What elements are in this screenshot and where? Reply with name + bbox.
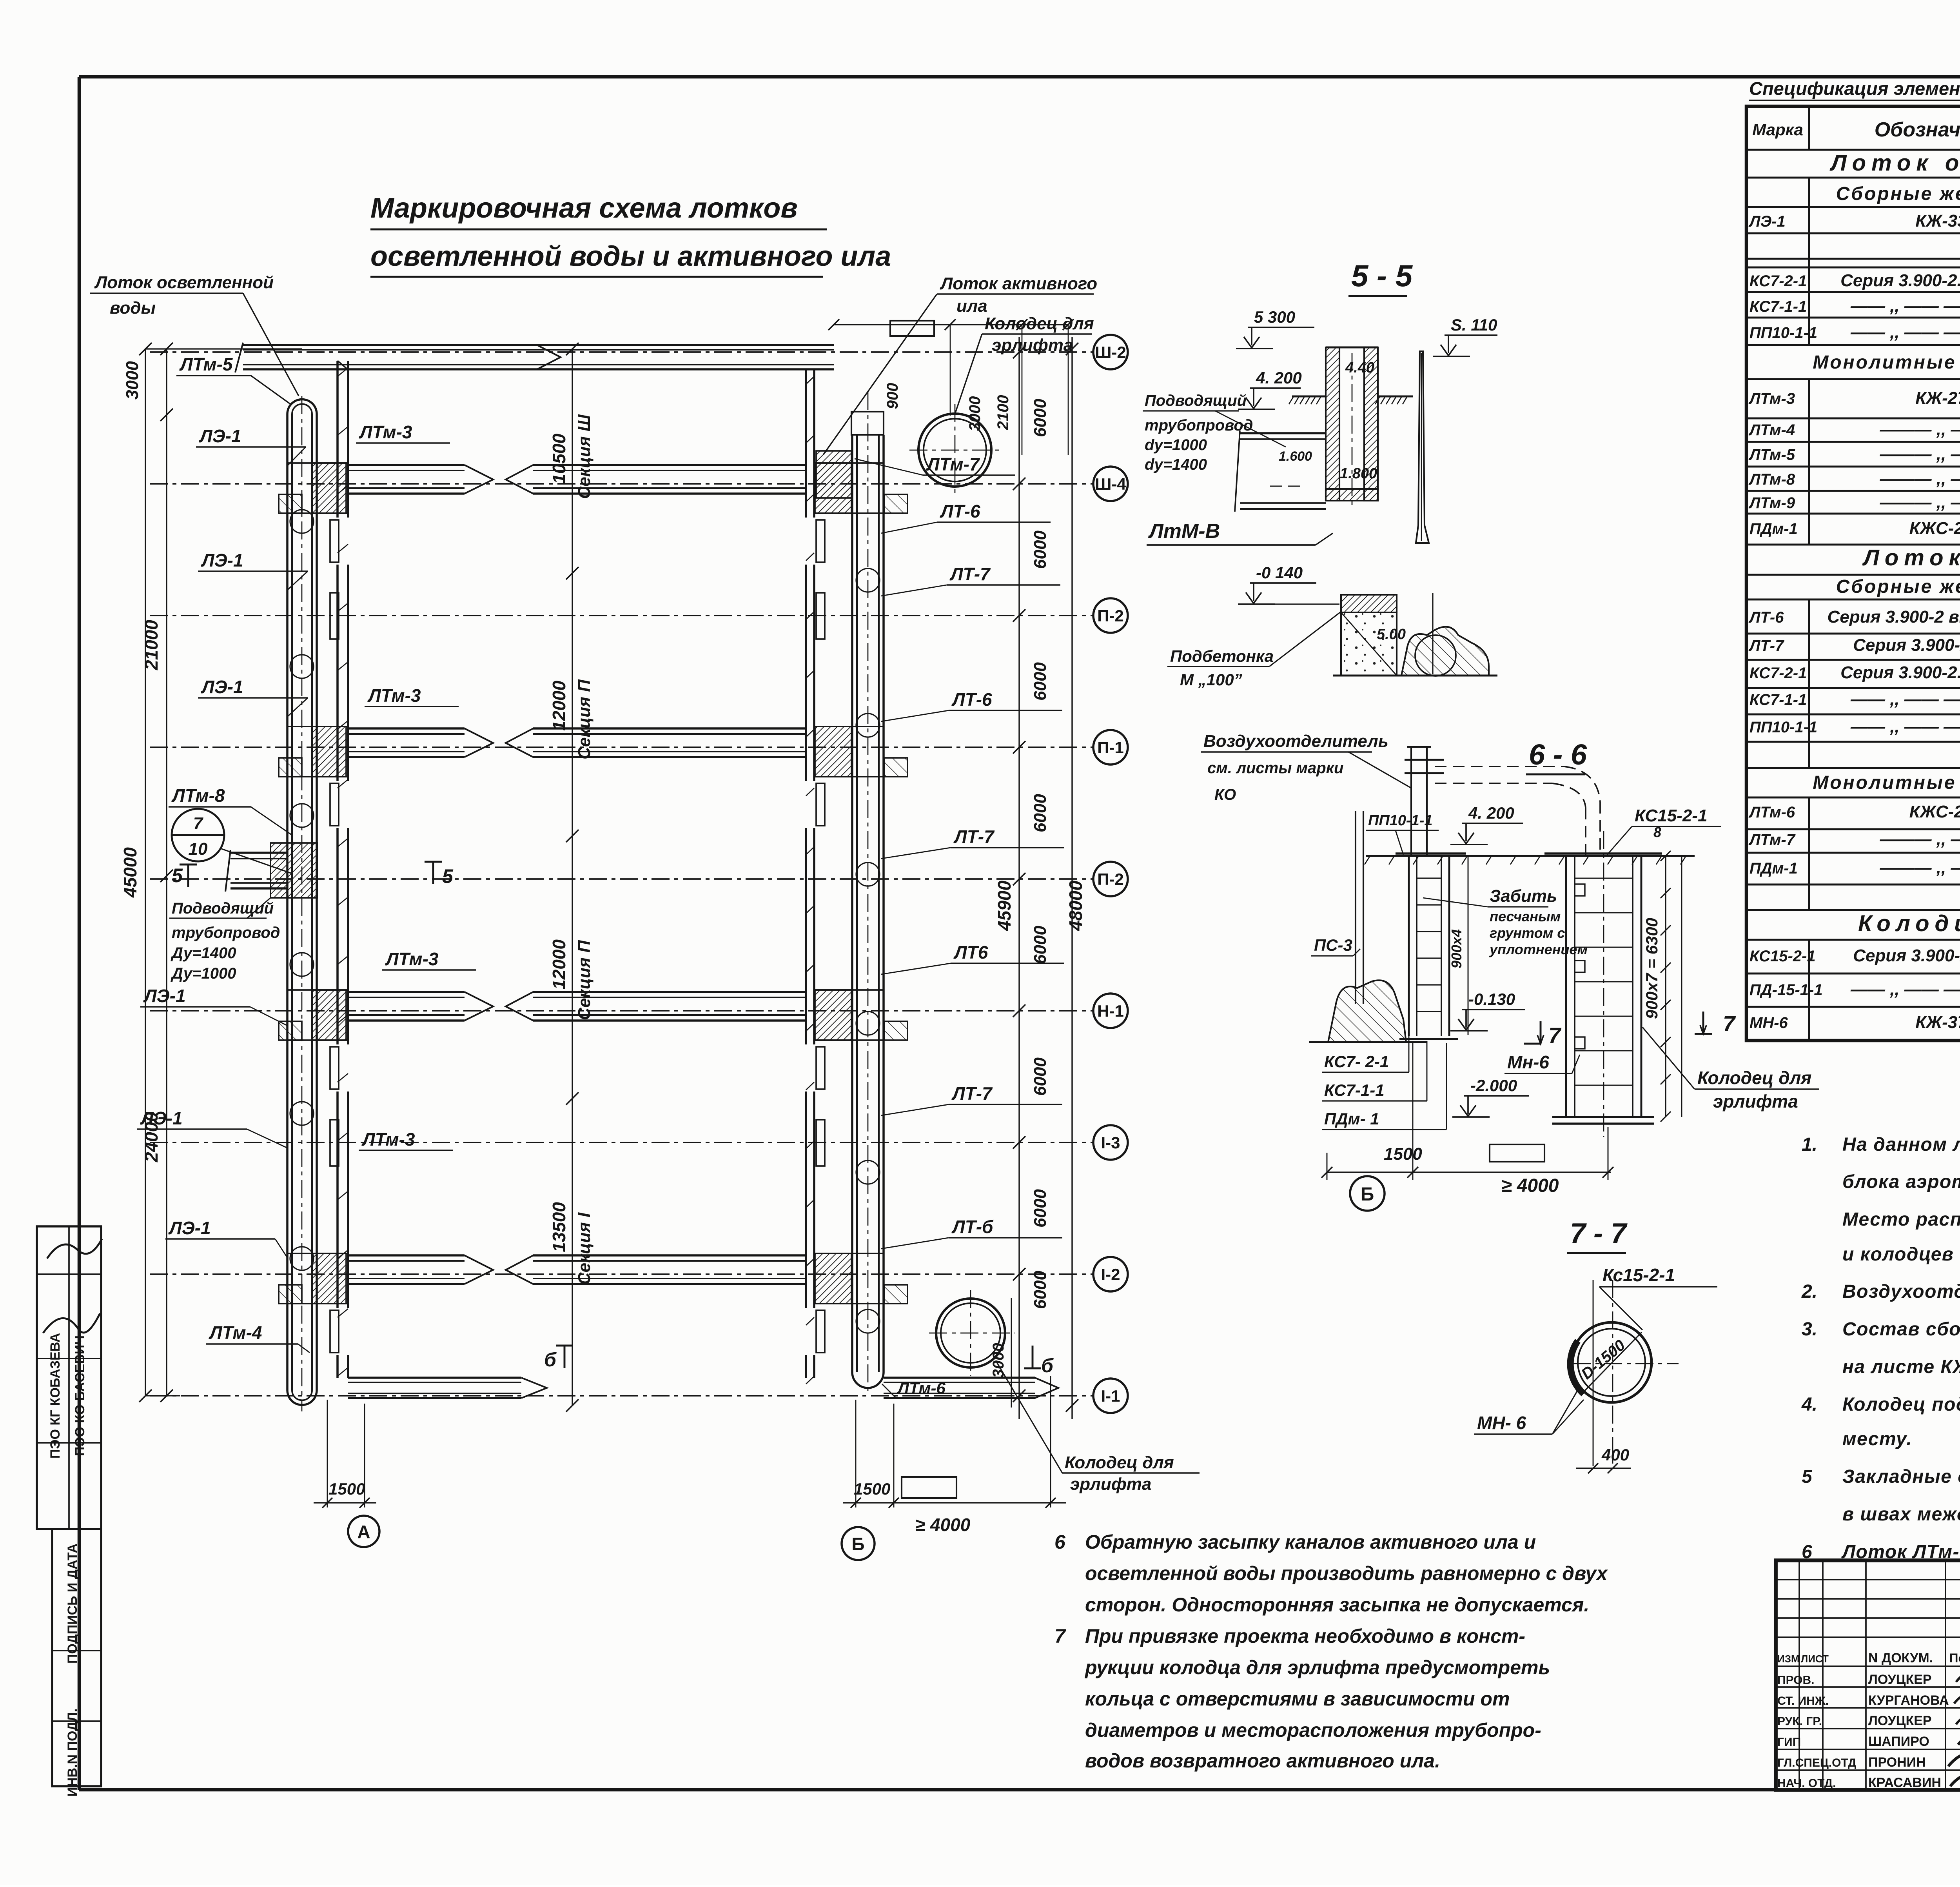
branch channel ЛТм-3 at axis y=1234 (left system) <box>279 463 493 513</box>
svg-text:6000: 6000 <box>1031 662 1050 701</box>
section marker б (right) <box>1024 1346 1054 1377</box>
svg-text:Ш-4: Ш-4 <box>1095 475 1126 493</box>
svg-text:А: А <box>357 1522 370 1542</box>
svg-text:П-1: П-1 <box>1097 738 1124 757</box>
label ЛТм-4 <box>206 1322 310 1353</box>
label ЛТ-7 (2) <box>881 564 1060 596</box>
svg-text:5 300: 5 300 <box>1254 308 1295 326</box>
svg-text:грунтом с: грунтом с <box>1490 925 1565 941</box>
svg-text:КС7- 2-1: КС7- 2-1 <box>1324 1052 1389 1071</box>
svg-text:эрлифта: эрлифта <box>992 336 1073 355</box>
svg-text:КЖ-37: КЖ-37 <box>1915 1013 1960 1032</box>
svg-text:уплотнением: уплотнением <box>1489 941 1588 957</box>
left dimension line 45000 <box>120 343 152 1402</box>
svg-text:1500: 1500 <box>854 1480 890 1498</box>
svg-text:ПЭО КО БАСЕВИЧ: ПЭО КО БАСЕВИЧ <box>73 1335 87 1456</box>
svg-text:5 - 5: 5 - 5 <box>1351 258 1413 293</box>
label ЛТ-7 (4) <box>881 826 1064 859</box>
svg-text:При привязке проекта необхо: При привязке проекта необходимо в конст- <box>1085 1625 1525 1647</box>
svg-text:блока аэротенков из четырех: блока аэротенков из четырех секций <box>1842 1171 1960 1192</box>
svg-text:—— ,, —— —— ,, ——: —— ,, —— —— ,, —— <box>1850 717 1960 736</box>
svg-text:ПДм- 1: ПДм- 1 <box>1324 1110 1379 1128</box>
svg-text:ЛТм-6: ЛТм-6 <box>897 1379 946 1397</box>
detail 5-5 inlet pipe <box>1235 430 1326 512</box>
svg-text:ЛтМ-В: ЛтМ-В <box>1148 520 1220 543</box>
level mark 5.300 <box>290 308 1819 1473</box>
detail 6-6 right well (airlift) <box>1544 831 1662 1137</box>
svg-text:ЛЭ-1: ЛЭ-1 <box>140 1108 183 1128</box>
svg-text:I-2: I-2 <box>1101 1265 1120 1284</box>
svg-text:сторон. Односторонняя засыпка: сторон. Односторонняя засыпка не допуска… <box>1085 1594 1589 1616</box>
svg-text:ПРОВ.: ПРОВ. <box>1777 1674 1815 1687</box>
svg-text:РУК. ГР.: РУК. ГР. <box>1777 1715 1822 1728</box>
svg-text:ЛТ-7: ЛТ-7 <box>1748 637 1784 654</box>
label ЛЭ-1 (1) <box>196 426 306 466</box>
section marker 5 (middle) <box>425 862 454 887</box>
svg-text:5: 5 <box>1802 1466 1813 1487</box>
svg-text:Колодец под эрлифт перекрыт: Колодец под эрлифт перекрыть деревянной … <box>1842 1394 1960 1415</box>
svg-text:Спецификация элементов к марки: Спецификация элементов к маркировочным с… <box>1749 78 1960 99</box>
notes items 6-7 bottom centre <box>1054 1531 1608 1772</box>
svg-text:Маркировочная схема лотков: Маркировочная схема лотков <box>370 193 798 224</box>
svg-text:КС7-2-1: КС7-2-1 <box>1749 665 1807 682</box>
svg-text:Место расположения и диаметр: Место расположения и диаметр подводящего… <box>1842 1209 1960 1230</box>
branch channel ЛТ at axis y=2578 (right system) <box>506 990 907 1040</box>
svg-text:СТ. ИНЖ.: СТ. ИНЖ. <box>1777 1694 1829 1707</box>
svg-text:900х7 = 6300: 900х7 = 6300 <box>1642 918 1661 1019</box>
clarified water channel (left vertical trough) <box>287 396 317 1411</box>
svg-text:ЛТм-8: ЛТм-8 <box>171 785 225 806</box>
detail 6-6 pile ПС-3 <box>1309 811 1427 1042</box>
svg-text:1500: 1500 <box>1384 1144 1422 1164</box>
detail подбетонка section <box>1333 593 1497 676</box>
svg-text:7: 7 <box>1723 1011 1736 1036</box>
section marker б (left) <box>544 1346 573 1371</box>
label ПС-3 <box>1311 936 1360 956</box>
axis line I-3 <box>150 1125 1128 1160</box>
svg-text:воды: воды <box>110 298 156 318</box>
svg-text:ПП10-1-1: ПП10-1-1 <box>1368 812 1433 829</box>
svg-text:КС7-1-1: КС7-1-1 <box>1749 691 1807 708</box>
label ЛТм-6 <box>882 1379 960 1398</box>
label КС15-2-1 (7-7) <box>1599 1265 1717 1330</box>
level mark -0.140 <box>290 510 1819 1473</box>
svg-text:Лоток осветленной воды: Лоток осветленной воды <box>1829 150 1960 176</box>
svg-text:КС7-2-1: КС7-2-1 <box>1749 272 1807 290</box>
svg-text:——— ,, ———: ——— ,, ——— <box>1880 858 1960 877</box>
svg-text:ЛТм-7: ЛТм-7 <box>926 454 980 474</box>
detail 6-6 air separator pipe <box>1405 747 1600 856</box>
svg-text:45000: 45000 <box>120 847 140 898</box>
svg-text:Секция П: Секция П <box>575 940 594 1020</box>
svg-text:ЛТм-5: ЛТм-5 <box>179 354 233 374</box>
level mark -0.130 <box>290 510 1819 1473</box>
label ЛТм-3 (3) <box>382 949 476 970</box>
svg-text:—— ,, —— —— ,, ——: —— ,, —— —— ,, —— <box>1850 323 1960 342</box>
svg-text:Колодец для: Колодец для <box>985 314 1094 333</box>
right 6000 spacing labels <box>1031 399 1050 1309</box>
svg-text:КС15-2-1: КС15-2-1 <box>1749 948 1816 965</box>
svg-text:Ду=1000: Ду=1000 <box>171 965 236 982</box>
svg-text:НАЧ. ОТД.: НАЧ. ОТД. <box>1777 1777 1836 1790</box>
svg-text:Мн-6: Мн-6 <box>1507 1052 1549 1072</box>
label ЛТ-7 (6) <box>881 1083 1062 1115</box>
svg-text:КЖ-33: КЖ-33 <box>1915 211 1960 231</box>
svg-text:7 - 7: 7 - 7 <box>1570 1218 1628 1249</box>
label ЛТ6 (5) <box>881 942 1064 974</box>
section cut marker 7 (outer) <box>1695 1011 1736 1036</box>
svg-text:6 - 6: 6 - 6 <box>1529 738 1587 771</box>
column mark circle Б <box>842 1527 875 1560</box>
svg-text:Секция Ш: Секция Ш <box>575 414 594 499</box>
svg-text:ЛТм-3: ЛТм-3 <box>359 422 412 442</box>
svg-text:1500: 1500 <box>328 1480 365 1498</box>
svg-text:ЛТм-7: ЛТм-7 <box>1748 831 1796 848</box>
svg-text:ЛТ-6: ЛТ-6 <box>940 501 980 521</box>
svg-text:7: 7 <box>1054 1625 1066 1647</box>
svg-text:На данном листе дана схема: На данном листе дана схема лотков при ко… <box>1842 1134 1960 1155</box>
svg-text:——— ,, ———: ——— ,, ——— <box>1880 420 1960 439</box>
level mark 4.200 (6-6) <box>290 510 1819 1473</box>
svg-text:П-2: П-2 <box>1097 607 1124 625</box>
detail 5-5 shaft section <box>1289 347 1413 510</box>
svg-text:-0 140: -0 140 <box>1256 563 1303 582</box>
svg-text:М „100”: М „100” <box>1180 670 1242 689</box>
svg-text:ПП10-1-1: ПП10-1-1 <box>1749 324 1817 341</box>
text Забить песчаным грунтом <box>1423 886 1588 957</box>
label МН-6 (7-7) <box>1474 1388 1584 1434</box>
label Лоток осветленной воды <box>90 273 299 396</box>
svg-text:Ду=1400: Ду=1400 <box>171 944 236 962</box>
bottom channel arm (left system, axis I-1) <box>348 1378 547 1398</box>
label Лоток активного ила <box>823 274 1097 455</box>
svg-text:ЛЭ-1: ЛЭ-1 <box>201 677 243 697</box>
svg-text:Лоток активного: Лоток активного <box>940 274 1097 293</box>
section marker 5 (left) <box>172 864 197 887</box>
label ЛТм-3 (2) <box>365 685 459 706</box>
svg-text:песчаным: песчаным <box>1490 908 1561 924</box>
svg-text:ГИП: ГИП <box>1777 1736 1801 1749</box>
label ЛЭ-1 (6) <box>165 1218 287 1258</box>
svg-text:ЛТ6: ЛТ6 <box>953 942 988 963</box>
bottom channel arm (right system, axis I-1) <box>884 1378 1058 1398</box>
inlet pipe (Подводящий трубопровод) on plan <box>225 843 318 898</box>
detail 6-6 ground line <box>1365 856 1695 864</box>
svg-text:——— ,, ———: ——— ,, ——— <box>1880 830 1960 849</box>
leader to подбетонка <box>1275 603 1339 605</box>
svg-text:5: 5 <box>442 865 454 887</box>
activated sludge channel (right vertical trough) <box>851 392 884 1396</box>
title block texts <box>1777 1580 1960 1836</box>
svg-text:КРАСАВИН: КРАСАВИН <box>1868 1775 1941 1790</box>
svg-text:Закладные детали МН-6 для: Закладные детали МН-6 для крепления эрли… <box>1842 1466 1960 1487</box>
top distribution channel along axis Ш-2 <box>235 343 834 372</box>
svg-text:месту.: месту. <box>1842 1429 1912 1449</box>
label Подводящий трубопровод (plan) <box>169 898 280 982</box>
svg-text:ПРОНИН: ПРОНИН <box>1868 1755 1926 1770</box>
svg-text:6: 6 <box>1054 1531 1066 1553</box>
svg-text:Обозначение: Обозначение <box>1875 118 1960 141</box>
svg-text:ЛТм-5: ЛТм-5 <box>1748 446 1795 463</box>
svg-text:4.40: 4.40 <box>1345 360 1374 376</box>
ЛТм-9 tag rectangle <box>890 321 934 336</box>
label ЛЭ-1 (3) <box>198 677 308 717</box>
svg-text:ПДм-1: ПДм-1 <box>1749 520 1798 538</box>
svg-text:900х4: 900х4 <box>1448 929 1465 968</box>
bottom dim 1500 (axis A) <box>314 1400 376 1508</box>
svg-text:ПОДПИСЬ И ДАТА: ПОДПИСЬ И ДАТА <box>65 1544 80 1664</box>
svg-text:1.800: 1.800 <box>1340 465 1377 482</box>
axis line Ш-4 <box>150 467 1128 501</box>
svg-text:Воздухоотделитель: Воздухоотделитель <box>1203 732 1388 751</box>
axis line I-2 <box>150 1257 1128 1291</box>
svg-text:Кс15-2-1: Кс15-2-1 <box>1602 1265 1675 1285</box>
svg-text:на листе КЖ-10.: на листе КЖ-10. <box>1842 1357 1960 1377</box>
svg-text:ЛЭ-1: ЛЭ-1 <box>199 426 241 446</box>
svg-text:ЛЭ-1: ЛЭ-1 <box>168 1218 211 1238</box>
svg-text:ИНВ.N ПОДЛ.: ИНВ.N ПОДЛ. <box>65 1709 80 1797</box>
svg-text:ШАПИРО: ШАПИРО <box>1868 1734 1929 1749</box>
level mark 4.200 (5-5) <box>290 347 1819 1473</box>
label ЛЭ-1 (2) <box>198 550 308 590</box>
dim 400 (7-7) <box>1576 1446 1631 1473</box>
svg-text:8: 8 <box>1653 824 1661 840</box>
svg-text:ЛОУЦКЕР: ЛОУЦКЕР <box>1868 1713 1932 1728</box>
svg-text:—— ,, —— —— ,, ——: —— ,, —— —— ,, —— <box>1850 980 1960 999</box>
svg-text:в швах между кольцами колод: в швах между кольцами колодца <box>1842 1504 1960 1525</box>
wall door stubs at intermediate axes (left wall) <box>330 593 339 1166</box>
svg-text:осветленной воды производить: осветленной воды производить равномерно … <box>1085 1562 1608 1584</box>
svg-text:Колодец для: Колодец для <box>1065 1453 1174 1472</box>
axis line Н-1 <box>150 993 1128 1028</box>
svg-text:Состав сборно-монолитного ло: Состав сборно-монолитного лотка осветлен… <box>1842 1319 1960 1340</box>
svg-text:Лоток осветленной: Лоток осветленной <box>94 273 274 292</box>
svg-text:N ДОКУМ.: N ДОКУМ. <box>1868 1651 1933 1665</box>
svg-text:ЛТм-4: ЛТм-4 <box>1748 421 1795 439</box>
channel joint bells (left) <box>290 510 314 1270</box>
label ЛТм-3 (1) <box>356 422 450 443</box>
svg-text:I-1: I-1 <box>1101 1387 1120 1405</box>
level mark -2.000 <box>290 510 1819 1473</box>
airlift well (bottom) <box>929 1290 1015 1376</box>
svg-text:б: б <box>544 1349 557 1371</box>
dim 300x4 left of well <box>1448 856 1468 1035</box>
svg-text:3000: 3000 <box>990 1343 1007 1378</box>
top dim line over well <box>828 319 1074 455</box>
svg-text:ЛИСТ: ЛИСТ <box>1801 1653 1829 1665</box>
bottom dim 1500 / 4000 (axis Б) <box>843 1376 1066 1535</box>
filing strip margin table <box>37 1226 102 1796</box>
svg-text:4. 200: 4. 200 <box>1256 369 1302 387</box>
svg-text:Б: Б <box>851 1534 864 1554</box>
label Подбетонка М100 <box>1167 612 1341 689</box>
svg-text:7: 7 <box>193 814 204 833</box>
axis line П-1 <box>150 730 1128 765</box>
svg-text:эрлифта: эрлифта <box>1070 1475 1151 1494</box>
svg-text:ЛТм-3: ЛТм-3 <box>1748 390 1795 407</box>
svg-text:45900: 45900 <box>994 881 1014 931</box>
svg-text:6000: 6000 <box>1031 1271 1050 1309</box>
detail 6-6 bottom dims <box>1321 1043 1613 1196</box>
svg-text:4.: 4. <box>1801 1394 1817 1415</box>
svg-text:КУРГАНОВА: КУРГАНОВА <box>1868 1693 1949 1708</box>
svg-text:Обратную засыпку каналов ак: Обратную засыпку каналов активного ила и <box>1085 1531 1536 1553</box>
svg-text:6000: 6000 <box>1031 1189 1050 1228</box>
svg-text:10500: 10500 <box>549 434 569 484</box>
svg-text:осветленной воды и активного: осветленной воды и активного ила <box>370 241 891 272</box>
svg-text:Серия 3.900-2 вып.6 КЖ-33: Серия 3.900-2 вып.6 КЖ-33 <box>1828 607 1960 627</box>
svg-text:-0.130: -0.130 <box>1468 990 1515 1008</box>
detail 7-7 ring section <box>1570 1280 1679 1468</box>
left dimension line 3000/21000/24000 <box>123 343 302 1402</box>
svg-text:эрлифта: эрлифта <box>1713 1091 1798 1111</box>
svg-text:dy=1000: dy=1000 <box>1145 436 1207 454</box>
svg-text:ЛЭ-1: ЛЭ-1 <box>1748 213 1786 230</box>
svg-text:МН- 6: МН- 6 <box>1477 1413 1526 1433</box>
svg-text:КЖ-27: КЖ-27 <box>1915 389 1960 408</box>
label Колодец для эрлифта (bottom) <box>996 1360 1200 1494</box>
svg-text:ЛТ-7: ЛТ-7 <box>949 564 991 584</box>
svg-text:ПС-3: ПС-3 <box>1314 936 1352 954</box>
svg-text:Забить: Забить <box>1490 886 1557 906</box>
main title <box>370 193 891 277</box>
svg-text:ЛТ-7: ЛТ-7 <box>951 1083 993 1104</box>
branch channel ЛТм-3 at axis y=3250 (left system) <box>279 1253 493 1304</box>
svg-text:Б: Б <box>1361 1184 1374 1205</box>
right aerotank wall <box>806 370 825 1384</box>
label ЛЭ-1 (4) <box>140 986 287 1026</box>
svg-text:Ш-2: Ш-2 <box>1095 343 1126 361</box>
detail 5-5 pile wall <box>1416 351 1429 543</box>
level mark 5.110 <box>290 316 1819 1473</box>
branch channel ЛТ at axis y=3250 (right system) <box>506 1253 907 1304</box>
svg-text:Серия 3.900-2 вып. 6: Серия 3.900-2 вып. 6 <box>1853 636 1960 655</box>
svg-text:трубопровод: трубопровод <box>172 924 280 941</box>
label Мн-6 <box>1504 1052 1580 1073</box>
detail callout circle 7/10 <box>172 809 292 874</box>
svg-text:Лоток активного ила: Лоток активного ила <box>1862 545 1960 570</box>
svg-text:1.: 1. <box>1802 1134 1817 1155</box>
airlift well (top, Колодец для эрлифта) <box>909 404 1002 498</box>
branch channel ЛТм-3 at axis y=1906 (left system) <box>279 726 493 777</box>
svg-text:13500: 13500 <box>549 1202 569 1252</box>
svg-text:5.00: 5.00 <box>1377 626 1406 643</box>
svg-text:ЛТм-8: ЛТм-8 <box>1748 471 1795 488</box>
svg-text:——— ,, ———: ——— ,, ——— <box>1880 445 1960 464</box>
svg-text:S. 110: S. 110 <box>1451 316 1497 334</box>
ЛТм-7 junction hatch <box>816 451 851 498</box>
svg-text:I-3: I-3 <box>1101 1133 1120 1152</box>
svg-text:трубопровод: трубопровод <box>1145 417 1253 434</box>
svg-text:—— ,, —— —— ,, ——: —— ,, —— —— ,, —— <box>1850 690 1960 709</box>
svg-text:КС15-2-1: КС15-2-1 <box>1635 806 1707 825</box>
svg-text:Марка: Марка <box>1752 120 1803 139</box>
svg-text:1.600: 1.600 <box>1279 449 1312 464</box>
svg-text:12000: 12000 <box>549 939 569 990</box>
svg-text:ПДм-1: ПДм-1 <box>1749 860 1798 877</box>
svg-text:Секция П: Секция П <box>575 679 594 759</box>
svg-text:Подпись: Подпись <box>1949 1651 1960 1665</box>
labels КС7-2-1 КС7-1-1 ПДм-1 (6-6 left) <box>1322 1019 1446 1130</box>
svg-text:ЛТм-4: ЛТм-4 <box>209 1322 262 1343</box>
svg-text:и колодцев для эрлифтов опр: и колодцев для эрлифтов определяется при… <box>1842 1244 1960 1265</box>
label Воздухоотделитель <box>1201 732 1411 803</box>
column mark circle Б (6-6) <box>1350 1176 1385 1211</box>
notes list items 1-6 <box>1801 1134 1960 1562</box>
svg-text:6000: 6000 <box>1031 530 1050 569</box>
svg-text:ЛТ-6: ЛТ-6 <box>1748 609 1784 626</box>
branch channel ЛТ at axis y=1234 (right system) <box>506 463 907 513</box>
column mark circle А <box>348 1516 379 1547</box>
svg-text:6000: 6000 <box>1031 926 1050 964</box>
svg-text:3000: 3000 <box>123 361 142 400</box>
right dimension line 48000 <box>1065 337 1086 1419</box>
svg-text:Сборные железобетонные эле: Сборные железобетонные элементы <box>1836 576 1960 597</box>
label Колодец для эрлифта (top) <box>955 314 1094 414</box>
svg-text:Серия 3.900-2.Выпуск 5: Серия 3.900-2.Выпуск 5 <box>1840 663 1960 682</box>
spec table grid <box>1746 106 1960 1041</box>
svg-text:Подбетонка: Подбетонка <box>1170 647 1274 665</box>
svg-text:12000: 12000 <box>549 681 569 731</box>
svg-text:КЖС-27: КЖС-27 <box>1909 802 1960 821</box>
svg-text:≥ 4000: ≥ 4000 <box>1501 1175 1559 1196</box>
svg-text:ЛОУЦКЕР: ЛОУЦКЕР <box>1868 1672 1932 1687</box>
svg-text:Подводящий: Подводящий <box>1145 392 1247 409</box>
svg-text:—— ,, —— —— ,, ——: —— ,, —— —— ,, —— <box>1850 296 1960 316</box>
svg-text:2100: 2100 <box>995 395 1012 430</box>
svg-text:Монолитные железобетонные эл: Монолитные железобетонные элементы <box>1813 772 1960 793</box>
svg-text:ИЗМ: ИЗМ <box>1777 1653 1800 1665</box>
svg-text:КО: КО <box>1214 786 1236 803</box>
svg-text:ЛТ-7: ЛТ-7 <box>953 826 995 847</box>
label ЛТм-3 (4) <box>359 1129 453 1150</box>
label ЛТм-7 <box>855 454 1015 475</box>
axis line I-1 <box>150 1378 1128 1413</box>
detail 6-6 title <box>1526 738 1587 774</box>
svg-text:Н-1: Н-1 <box>1097 1002 1124 1020</box>
svg-text:——— ,, ———: ——— ,, ——— <box>1880 469 1960 489</box>
svg-text:КС7-1-1: КС7-1-1 <box>1749 298 1807 315</box>
svg-text:ЛТм-6: ЛТм-6 <box>1748 804 1795 821</box>
svg-text:ПЭО КГ КОБАЗЕВА: ПЭО КГ КОБАЗЕВА <box>48 1333 63 1458</box>
svg-text:6000: 6000 <box>1031 399 1050 437</box>
label ПП10-1-1 (6-6) <box>1366 812 1439 855</box>
label КС15-2-1 (6-6) <box>1607 806 1721 855</box>
svg-text:Секция I: Секция I <box>575 1212 594 1285</box>
svg-text:МН-6: МН-6 <box>1749 1014 1788 1032</box>
svg-text:Серия 3.900-2 вып. 5: Серия 3.900-2 вып. 5 <box>1853 946 1960 965</box>
svg-text:dy=1400: dy=1400 <box>1145 456 1207 473</box>
svg-text:4. 200: 4. 200 <box>1468 804 1514 822</box>
left aerotank wall <box>330 361 348 1378</box>
label ЛТ-6 (3) <box>881 689 1062 721</box>
svg-text:см. листы марки: см. листы марки <box>1207 759 1343 777</box>
svg-text:Воздухоотделитель должен рас: Воздухоотделитель должен располагаться н… <box>1842 1281 1960 1302</box>
svg-text:≥ 4000: ≥ 4000 <box>915 1515 971 1535</box>
svg-text:-2.000: -2.000 <box>1470 1076 1517 1095</box>
axis line П-2 <box>150 862 1128 896</box>
detail 6-6 left well <box>1396 854 1466 1039</box>
svg-text:ЛТ-б: ЛТ-б <box>951 1217 994 1237</box>
svg-text:П-2: П-2 <box>1097 870 1124 888</box>
svg-text:400: 400 <box>1601 1446 1629 1464</box>
section cut marker 7 (inner) <box>1524 1021 1562 1048</box>
svg-text:б: б <box>1041 1355 1054 1377</box>
svg-text:21000: 21000 <box>141 620 162 670</box>
svg-text:ГЛ.СПЕЦ.ОТД: ГЛ.СПЕЦ.ОТД <box>1777 1756 1856 1769</box>
svg-text:КС7-1-1: КС7-1-1 <box>1324 1081 1385 1099</box>
svg-text:Серия 3.900-2.Выпуск 5: Серия 3.900-2.Выпуск 5 <box>1840 271 1960 290</box>
